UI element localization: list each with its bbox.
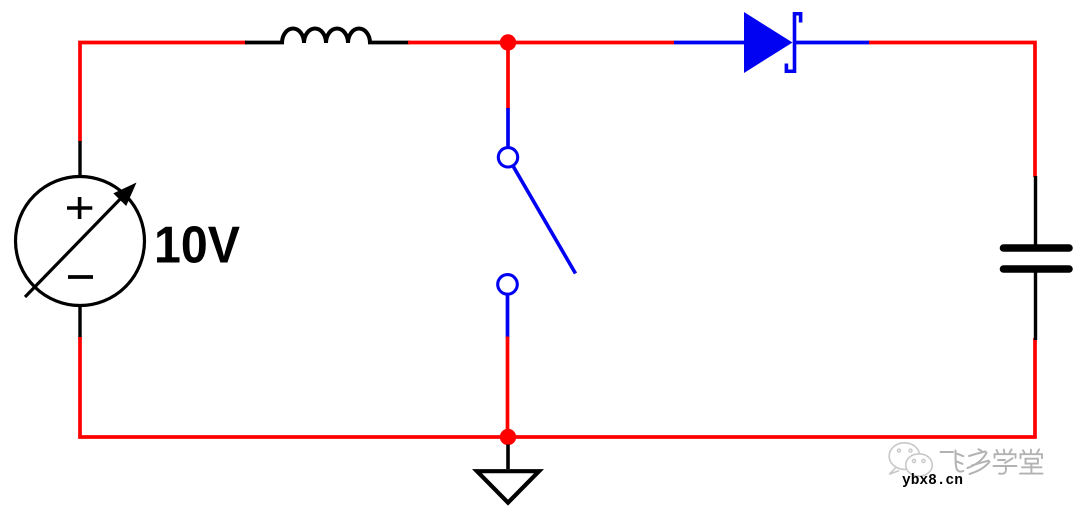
wire blue diode cathode lead: [794, 41, 870, 45]
capacitor C1 lead bottom black: [1034, 271, 1037, 340]
voltage source V1 lead top black: [78, 141, 81, 177]
wire inductor black leads: [245, 41, 284, 45]
voltage source V1 arrow head: [113, 183, 136, 207]
voltage source V1 arrow shaft: [25, 191, 128, 297]
watermark chinese char tang: [1020, 449, 1043, 473]
capacitor C1 bottom plate: [1004, 265, 1070, 273]
wire red diode to top-right corner: [869, 43, 1035, 178]
diode D1 triangle: [744, 12, 793, 73]
wire middle blue to switch: [506, 108, 510, 147]
node B bottom junction dot: [500, 429, 516, 445]
wire middle blue below switch: [506, 295, 510, 338]
switch S1 top terminal: [498, 148, 517, 167]
wire red node to diode: [506, 41, 674, 45]
watermark wechat icon small bubble eyes: [912, 459, 915, 462]
wire top-left red segment: [80, 43, 247, 142]
svg-text:10V: 10V: [154, 217, 240, 275]
wire middle red from node down: [506, 43, 510, 110]
watermark wechat icon big bubble: [889, 443, 920, 474]
capacitor C1 lead top black: [1034, 176, 1037, 246]
watermark chinese char duo: [968, 449, 990, 474]
ground symbol: [477, 471, 539, 502]
node A top junction dot: [500, 34, 516, 50]
svg-text:ybx8.cn: ybx8.cn: [902, 473, 963, 489]
switch S1 arm: [514, 167, 576, 274]
watermark chinese char xue: [994, 449, 1017, 473]
wire left vertical red to bottom: [80, 337, 510, 437]
wire middle red to bottom node: [506, 337, 510, 438]
voltage source V1 plus sign: [67, 197, 92, 219]
capacitor C1 top plate: [1004, 244, 1070, 252]
switch S1 bottom terminal: [498, 275, 518, 295]
inductor L1: [282, 29, 370, 44]
wire bottom red node to right: [506, 338, 1035, 437]
watermark wechat icon big bubble eyes: [898, 449, 901, 452]
ground stub: [506, 445, 510, 470]
wire blue diode anode lead: [674, 41, 746, 45]
wire red inductor to node: [408, 41, 510, 45]
watermark wechat icon small bubble: [906, 454, 933, 476]
voltage source V1 lead bottom black: [78, 306, 81, 339]
diode D1 schottky cathode bar: [786, 14, 800, 72]
watermark chinese char fei: [941, 451, 964, 472]
voltage source V1 circle: [16, 177, 145, 306]
voltage source V1 minus sign: [68, 275, 93, 279]
